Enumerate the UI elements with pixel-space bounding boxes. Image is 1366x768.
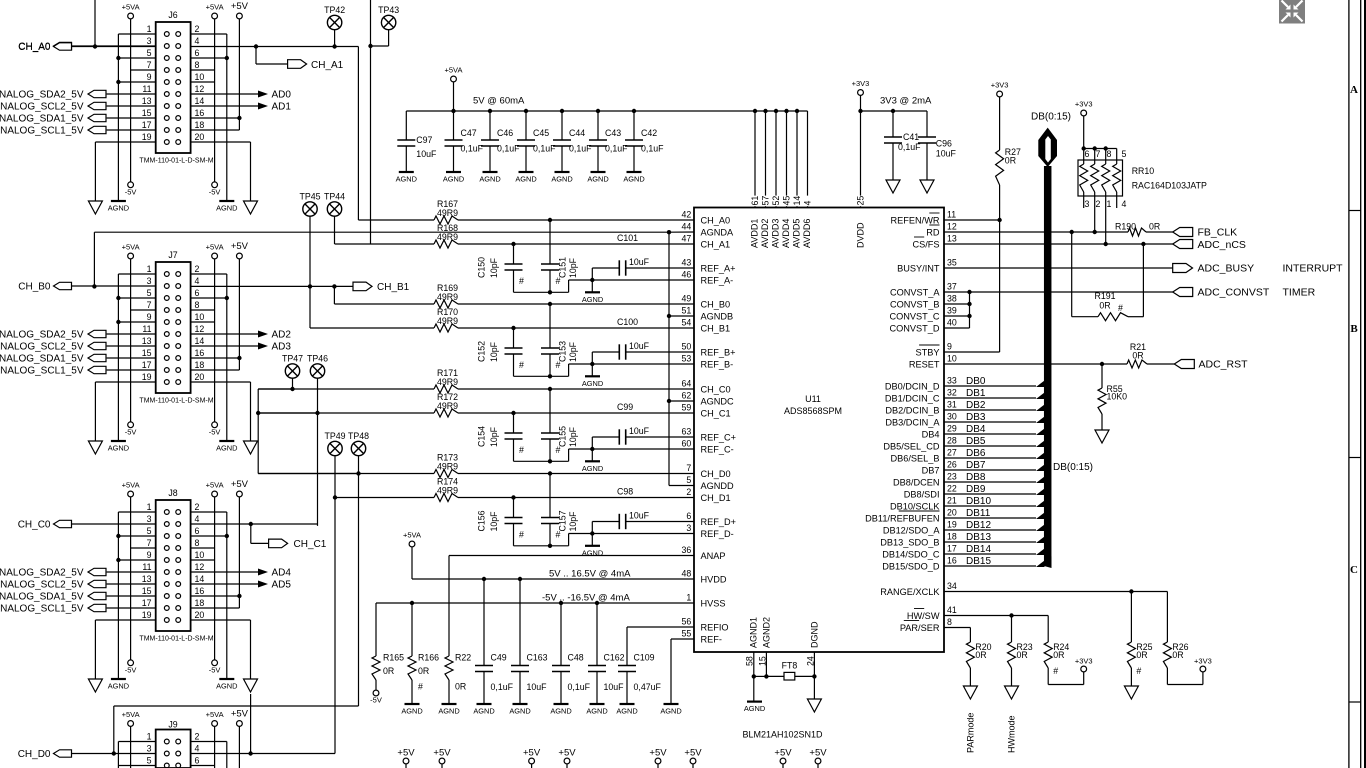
svg-text:DB3: DB3 <box>966 412 986 423</box>
svg-text:INTERRUPT: INTERRUPT <box>1283 263 1344 275</box>
svg-text:48: 48 <box>682 569 692 579</box>
svg-text:0R: 0R <box>418 666 429 676</box>
svg-text:0,1uF: 0,1uF <box>605 144 628 154</box>
svg-text:AGND: AGND <box>582 464 603 473</box>
svg-text:+5V: +5V <box>231 479 249 490</box>
svg-text:AGND2: AGND2 <box>762 617 772 648</box>
svg-text:0R: 0R <box>1172 650 1183 660</box>
svg-text:AD1: AD1 <box>272 102 292 113</box>
svg-text:2: 2 <box>195 264 200 274</box>
svg-text:REFIO: REFIO <box>701 622 729 632</box>
svg-text:AGND: AGND <box>216 444 237 453</box>
svg-text:37: 37 <box>947 282 957 292</box>
svg-text:43: 43 <box>682 258 692 268</box>
svg-text:10uF: 10uF <box>629 426 650 436</box>
svg-text:#: # <box>556 530 561 540</box>
svg-text:+5V: +5V <box>397 748 415 759</box>
svg-text:C49: C49 <box>491 653 507 663</box>
svg-text:C157: C157 <box>557 510 567 531</box>
svg-text:5: 5 <box>147 756 152 766</box>
svg-text:C98: C98 <box>617 487 633 497</box>
svg-text:3V3 @ 2mA: 3V3 @ 2mA <box>880 96 932 107</box>
svg-text:ANALOG_SDA1_5V: ANALOG_SDA1_5V <box>0 354 84 365</box>
svg-text:CONVST_C: CONVST_C <box>889 311 939 321</box>
svg-text:TMM-110-01-L-D-SM-M: TMM-110-01-L-D-SM-M <box>139 158 213 165</box>
svg-text:ADS8568SPM: ADS8568SPM <box>784 406 842 416</box>
svg-text:TIMER: TIMER <box>1283 287 1316 299</box>
svg-text:16: 16 <box>947 556 957 566</box>
svg-text:C42: C42 <box>641 128 657 138</box>
svg-text:10K0: 10K0 <box>1107 392 1128 402</box>
svg-text:DB14/SDO_C: DB14/SDO_C <box>882 549 940 559</box>
svg-text:J6: J6 <box>168 10 177 20</box>
svg-text:U11: U11 <box>805 394 821 404</box>
svg-text:AGND: AGND <box>401 707 422 716</box>
svg-text:12: 12 <box>195 324 205 334</box>
svg-text:BUSY/INT: BUSY/INT <box>897 263 940 273</box>
svg-text:12: 12 <box>195 84 205 94</box>
svg-text:C44: C44 <box>569 128 585 138</box>
svg-text:C47: C47 <box>461 128 477 138</box>
svg-text:#: # <box>519 445 524 455</box>
svg-text:AVDD4: AVDD4 <box>781 219 791 248</box>
svg-text:0,1uF: 0,1uF <box>569 144 592 154</box>
svg-text:12: 12 <box>947 222 957 232</box>
svg-text:TP45: TP45 <box>299 192 320 202</box>
svg-text:AGND: AGND <box>551 175 572 184</box>
svg-text:52: 52 <box>771 196 781 206</box>
svg-text:AD4: AD4 <box>272 568 292 579</box>
svg-text:R190: R190 <box>1115 222 1136 232</box>
svg-text:DB6: DB6 <box>966 448 986 459</box>
svg-text:REF_D+: REF_D+ <box>701 517 737 527</box>
svg-text:R165: R165 <box>383 653 404 663</box>
svg-text:40: 40 <box>947 318 957 328</box>
svg-text:PARmode: PARmode <box>965 713 975 753</box>
svg-text:ANALOG_SCL1_5V: ANALOG_SCL1_5V <box>0 126 84 137</box>
svg-text:DB7: DB7 <box>966 460 986 471</box>
svg-text:+5VA: +5VA <box>403 531 421 540</box>
svg-text:18: 18 <box>195 120 205 130</box>
svg-text:DB4: DB4 <box>922 429 940 439</box>
svg-text:3: 3 <box>1085 199 1090 209</box>
svg-text:DB15/SDO_D: DB15/SDO_D <box>882 561 940 571</box>
svg-text:C155: C155 <box>557 426 567 447</box>
svg-text:R166: R166 <box>418 653 439 663</box>
svg-text:25: 25 <box>856 196 866 206</box>
svg-text:AGND: AGND <box>582 379 603 388</box>
svg-text:DB7: DB7 <box>922 465 940 475</box>
svg-text:#: # <box>519 530 524 540</box>
svg-text:-5V: -5V <box>370 696 382 705</box>
svg-text:49R9: 49R9 <box>437 462 458 472</box>
svg-text:10uF: 10uF <box>629 257 650 267</box>
svg-text:0,1uF: 0,1uF <box>497 144 520 154</box>
svg-text:1: 1 <box>147 732 152 742</box>
svg-text:5: 5 <box>686 475 691 485</box>
svg-text:63: 63 <box>682 427 692 437</box>
svg-text:CH_C0: CH_C0 <box>701 384 731 394</box>
svg-text:DB11/REFBUFEN: DB11/REFBUFEN <box>865 513 939 523</box>
svg-text:C109: C109 <box>634 653 655 663</box>
svg-text:ANALOG_SDA2_5V: ANALOG_SDA2_5V <box>0 330 84 341</box>
svg-text:14: 14 <box>792 196 802 206</box>
svg-text:DB11: DB11 <box>966 508 991 519</box>
svg-text:DB13_SDO_B: DB13_SDO_B <box>880 537 939 547</box>
svg-text:0,1uF: 0,1uF <box>641 144 664 154</box>
svg-text:C101: C101 <box>617 233 638 243</box>
svg-text:TP46: TP46 <box>307 354 328 364</box>
svg-text:AGND: AGND <box>473 707 494 716</box>
svg-text:J7: J7 <box>168 250 177 260</box>
svg-text:56: 56 <box>682 617 692 627</box>
svg-text:AGND: AGND <box>108 204 129 213</box>
svg-text:+3V3: +3V3 <box>1194 657 1212 666</box>
svg-text:12: 12 <box>195 562 205 572</box>
svg-text:3: 3 <box>686 523 691 533</box>
svg-text:#: # <box>418 682 423 692</box>
svg-text:19: 19 <box>142 610 152 620</box>
svg-text:AVDD2: AVDD2 <box>760 219 770 248</box>
svg-text:AGND: AGND <box>550 707 571 716</box>
svg-text:DB10: DB10 <box>966 496 991 507</box>
svg-text:DB14: DB14 <box>966 544 991 555</box>
svg-text:REF_D-: REF_D- <box>701 529 734 539</box>
svg-text:AGND: AGND <box>108 682 129 691</box>
svg-text:+5V: +5V <box>433 748 451 759</box>
svg-text:0,1uF: 0,1uF <box>461 144 484 154</box>
svg-text:42: 42 <box>682 210 692 220</box>
svg-text:21: 21 <box>947 496 957 506</box>
svg-text:C156: C156 <box>477 510 487 531</box>
svg-text:5V .. 16.5V @ 4mA: 5V .. 16.5V @ 4mA <box>549 569 631 580</box>
svg-text:ANALOG_SDA2_5V: ANALOG_SDA2_5V <box>0 90 84 101</box>
svg-text:2: 2 <box>195 732 200 742</box>
svg-text:13: 13 <box>947 234 957 244</box>
svg-text:TP44: TP44 <box>324 192 345 202</box>
svg-text:10pF: 10pF <box>568 426 578 447</box>
svg-text:C153: C153 <box>557 341 567 362</box>
svg-text:0,47uF: 0,47uF <box>634 682 662 692</box>
svg-text:2: 2 <box>1096 199 1101 209</box>
svg-text:TMM-110-01-L-D-SM-M: TMM-110-01-L-D-SM-M <box>139 398 213 405</box>
svg-text:ANALOG_SDA2_5V: ANALOG_SDA2_5V <box>0 568 84 579</box>
svg-text:+5V: +5V <box>523 748 541 759</box>
svg-text:AGND: AGND <box>616 707 637 716</box>
svg-text:C100: C100 <box>617 317 638 327</box>
svg-text:+5VA: +5VA <box>445 66 463 75</box>
svg-text:0R: 0R <box>1149 222 1160 232</box>
svg-text:FB_CLK: FB_CLK <box>1198 227 1238 239</box>
svg-text:+3V3: +3V3 <box>1075 100 1093 109</box>
svg-text:17: 17 <box>142 360 152 370</box>
svg-text:2: 2 <box>195 502 200 512</box>
svg-text:10pF: 10pF <box>489 341 499 362</box>
svg-text:HVDD: HVDD <box>701 574 727 584</box>
svg-text:R22: R22 <box>455 653 471 663</box>
svg-text:+5VA: +5VA <box>206 710 224 719</box>
svg-text:7: 7 <box>147 60 152 70</box>
svg-text:AGND: AGND <box>479 175 500 184</box>
svg-text:13: 13 <box>142 96 152 106</box>
svg-text:10uF: 10uF <box>629 341 650 351</box>
svg-text:AD2: AD2 <box>272 330 292 341</box>
svg-text:R191: R191 <box>1094 291 1115 301</box>
svg-text:RD: RD <box>926 227 940 237</box>
svg-text:33: 33 <box>947 376 957 386</box>
svg-text:AGNDB: AGNDB <box>701 311 734 321</box>
svg-text:A: A <box>1350 84 1358 96</box>
svg-text:AVDD1: AVDD1 <box>750 219 760 248</box>
svg-text:DB1/DCIN_C: DB1/DCIN_C <box>885 393 940 403</box>
svg-text:22: 22 <box>947 484 957 494</box>
svg-text:+5V: +5V <box>231 709 249 720</box>
svg-text:4: 4 <box>195 36 200 46</box>
svg-text:49R9: 49R9 <box>437 486 458 496</box>
svg-text:7: 7 <box>147 538 152 548</box>
svg-text:-5V: -5V <box>125 187 137 196</box>
svg-text:47: 47 <box>682 234 692 244</box>
svg-text:17: 17 <box>142 598 152 608</box>
svg-text:ANALOG_SCL2_5V: ANALOG_SCL2_5V <box>0 580 84 591</box>
svg-text:0R: 0R <box>455 682 466 692</box>
svg-text:CH_A1: CH_A1 <box>311 60 344 71</box>
svg-text:20: 20 <box>195 372 205 382</box>
svg-text:C48: C48 <box>568 653 584 663</box>
svg-text:+5VA: +5VA <box>122 3 140 12</box>
svg-text:5: 5 <box>1122 149 1127 159</box>
svg-text:+5V: +5V <box>684 748 702 759</box>
svg-text:AGNDA: AGNDA <box>701 227 735 237</box>
svg-text:19: 19 <box>142 372 152 382</box>
svg-text:REF_A-: REF_A- <box>701 275 734 285</box>
svg-text:C41: C41 <box>903 132 919 142</box>
svg-text:9: 9 <box>147 312 152 322</box>
svg-text:18: 18 <box>195 360 205 370</box>
svg-text:-5V: -5V <box>125 665 137 674</box>
svg-text:7: 7 <box>686 463 691 473</box>
svg-text:18: 18 <box>947 532 957 542</box>
svg-text:8: 8 <box>195 538 200 548</box>
svg-text:+5V: +5V <box>649 748 667 759</box>
svg-text:ANALOG_SDA1_5V: ANALOG_SDA1_5V <box>0 592 84 603</box>
svg-text:DB3/DCIN_A: DB3/DCIN_A <box>885 417 940 427</box>
svg-text:DB2: DB2 <box>966 400 986 411</box>
svg-text:CH_D0: CH_D0 <box>18 749 51 760</box>
svg-text:-5V: -5V <box>209 187 221 196</box>
svg-text:DB0/DCIN_D: DB0/DCIN_D <box>885 381 940 391</box>
svg-text:+5V: +5V <box>231 241 249 252</box>
svg-text:REF_A+: REF_A+ <box>701 263 736 273</box>
svg-text:C45: C45 <box>533 128 549 138</box>
svg-text:49R9: 49R9 <box>437 292 458 302</box>
svg-text:AGND: AGND <box>108 444 129 453</box>
svg-text:49R9: 49R9 <box>437 208 458 218</box>
svg-text:ANALOG_SCL2_5V: ANALOG_SCL2_5V <box>0 102 84 113</box>
svg-text:CH_C0: CH_C0 <box>18 520 51 531</box>
svg-text:AGND: AGND <box>623 175 644 184</box>
svg-text:C97: C97 <box>416 135 432 145</box>
svg-text:J9: J9 <box>168 720 177 730</box>
svg-text:39: 39 <box>947 306 957 316</box>
svg-text:4: 4 <box>195 514 200 524</box>
svg-text:RAC164D103JATP: RAC164D103JATP <box>1132 181 1207 191</box>
svg-text:HVSS: HVSS <box>701 598 726 608</box>
svg-text:50: 50 <box>682 342 692 352</box>
svg-text:DB12: DB12 <box>966 520 991 531</box>
svg-text:49: 49 <box>682 294 692 304</box>
svg-text:51: 51 <box>682 306 692 316</box>
svg-text:13: 13 <box>142 574 152 584</box>
svg-text:J8: J8 <box>168 488 177 498</box>
svg-text:23: 23 <box>947 472 957 482</box>
svg-text:4: 4 <box>1122 199 1127 209</box>
svg-text:38: 38 <box>947 294 957 304</box>
svg-text:#: # <box>1118 303 1123 313</box>
svg-text:8: 8 <box>1107 149 1112 159</box>
svg-text:AGND: AGND <box>515 175 536 184</box>
svg-text:57: 57 <box>761 196 771 206</box>
svg-text:29: 29 <box>947 424 957 434</box>
svg-text:ANALOG_SCL1_5V: ANALOG_SCL1_5V <box>0 604 84 615</box>
svg-text:#: # <box>1053 666 1058 676</box>
svg-text:+5VA: +5VA <box>206 243 224 252</box>
svg-text:C150: C150 <box>477 257 487 278</box>
svg-text:AVDD3: AVDD3 <box>771 219 781 248</box>
svg-text:1: 1 <box>147 502 152 512</box>
svg-text:#: # <box>556 360 561 370</box>
svg-text:TP49: TP49 <box>324 431 345 441</box>
svg-text:10: 10 <box>195 312 205 322</box>
svg-text:5V @ 60mA: 5V @ 60mA <box>473 96 525 107</box>
svg-text:10pF: 10pF <box>568 341 578 362</box>
svg-text:DB12/SDO_A: DB12/SDO_A <box>883 525 941 535</box>
svg-text:REF-: REF- <box>701 634 722 644</box>
svg-text:64: 64 <box>682 379 692 389</box>
svg-text:41: 41 <box>947 605 957 615</box>
svg-text:1: 1 <box>147 264 152 274</box>
svg-text:HWmode: HWmode <box>1007 715 1017 753</box>
svg-text:53: 53 <box>682 354 692 364</box>
svg-text:55: 55 <box>682 629 692 639</box>
svg-text:10pF: 10pF <box>489 511 499 532</box>
svg-text:14: 14 <box>195 336 205 346</box>
svg-text:62: 62 <box>682 391 692 401</box>
svg-text:0R: 0R <box>1132 351 1143 361</box>
svg-text:CH_A0: CH_A0 <box>18 42 51 53</box>
svg-text:0R: 0R <box>1099 301 1110 311</box>
svg-text:49R9: 49R9 <box>437 232 458 242</box>
svg-text:14: 14 <box>195 96 205 106</box>
svg-text:59: 59 <box>682 403 692 413</box>
svg-text:+5V: +5V <box>809 748 827 759</box>
svg-text:+3V3: +3V3 <box>1075 657 1093 666</box>
svg-text:0R: 0R <box>1005 156 1016 166</box>
svg-text:DB0: DB0 <box>966 376 986 387</box>
svg-text:+5V: +5V <box>231 1 249 12</box>
svg-text:3: 3 <box>147 36 152 46</box>
svg-text:0,1uF: 0,1uF <box>533 144 556 154</box>
svg-text:DB5/SEL_CD: DB5/SEL_CD <box>883 441 940 451</box>
svg-text:5: 5 <box>147 526 152 536</box>
svg-text:8: 8 <box>947 617 952 627</box>
svg-text:CONVST_D: CONVST_D <box>889 323 939 333</box>
svg-text:BLM21AH102SN1D: BLM21AH102SN1D <box>743 730 824 740</box>
svg-text:10uF: 10uF <box>629 511 650 521</box>
svg-text:0R: 0R <box>1053 650 1064 660</box>
svg-text:C: C <box>1350 564 1358 576</box>
svg-text:-5V: -5V <box>209 427 221 436</box>
svg-text:19: 19 <box>142 132 152 142</box>
svg-text:+5VA: +5VA <box>122 710 140 719</box>
svg-text:ANALOG_SCL1_5V: ANALOG_SCL1_5V <box>0 366 84 377</box>
svg-text:AGND: AGND <box>744 704 765 713</box>
svg-text:61: 61 <box>750 196 760 206</box>
svg-text:11: 11 <box>142 562 151 572</box>
svg-text:DGND: DGND <box>810 621 820 648</box>
svg-text:DB(0:15): DB(0:15) <box>1053 462 1093 473</box>
svg-text:CH_D1: CH_D1 <box>701 493 731 503</box>
svg-text:STBY: STBY <box>916 347 940 357</box>
svg-text:DB9: DB9 <box>966 484 986 495</box>
svg-text:CH_B0: CH_B0 <box>18 282 51 293</box>
svg-text:ADC_CONVST: ADC_CONVST <box>1198 287 1270 299</box>
svg-text:9: 9 <box>947 342 952 352</box>
svg-text:49R9: 49R9 <box>437 377 458 387</box>
svg-text:7: 7 <box>147 300 152 310</box>
svg-text:#: # <box>1136 666 1141 676</box>
svg-text:18: 18 <box>195 598 205 608</box>
svg-text:35: 35 <box>947 258 957 268</box>
svg-text:DB10/SCLK: DB10/SCLK <box>890 501 940 511</box>
svg-text:8: 8 <box>195 300 200 310</box>
svg-text:+5VA: +5VA <box>122 481 140 490</box>
svg-text:6: 6 <box>195 288 200 298</box>
svg-text:TP43: TP43 <box>378 5 399 15</box>
svg-text:19: 19 <box>947 520 957 530</box>
svg-text:CH_A0: CH_A0 <box>701 215 731 225</box>
svg-text:RANGE/XCLK: RANGE/XCLK <box>880 587 940 597</box>
svg-text:17: 17 <box>142 120 152 130</box>
svg-text:C163: C163 <box>527 653 548 663</box>
svg-text:CH_B1: CH_B1 <box>701 323 731 333</box>
svg-text:10pF: 10pF <box>489 426 499 447</box>
svg-text:#: # <box>519 276 524 286</box>
svg-text:DB5: DB5 <box>966 436 986 447</box>
svg-text:9: 9 <box>147 550 152 560</box>
svg-text:AGND: AGND <box>660 707 681 716</box>
svg-text:20: 20 <box>947 508 957 518</box>
svg-text:0,1uF: 0,1uF <box>491 682 514 692</box>
svg-text:TP42: TP42 <box>324 5 345 15</box>
svg-text:6: 6 <box>195 48 200 58</box>
svg-text:REFEN/WR: REFEN/WR <box>891 215 940 225</box>
svg-text:ADC_BUSY: ADC_BUSY <box>1198 263 1255 275</box>
svg-text:ADC_RST: ADC_RST <box>1199 359 1249 371</box>
svg-text:DB6/SEL_B: DB6/SEL_B <box>890 453 939 463</box>
svg-text:15: 15 <box>142 586 152 596</box>
svg-text:10: 10 <box>195 550 205 560</box>
svg-text:+5VA: +5VA <box>206 481 224 490</box>
svg-text:10: 10 <box>947 354 957 364</box>
svg-text:-5V .. -16.5V @ 4mA: -5V .. -16.5V @ 4mA <box>542 593 630 604</box>
svg-text:AD0: AD0 <box>272 90 292 101</box>
svg-text:17: 17 <box>947 544 957 554</box>
svg-text:10uF: 10uF <box>416 149 437 159</box>
svg-text:AGND: AGND <box>587 175 608 184</box>
svg-text:REF_B+: REF_B+ <box>701 347 736 357</box>
svg-text:45: 45 <box>782 196 792 206</box>
